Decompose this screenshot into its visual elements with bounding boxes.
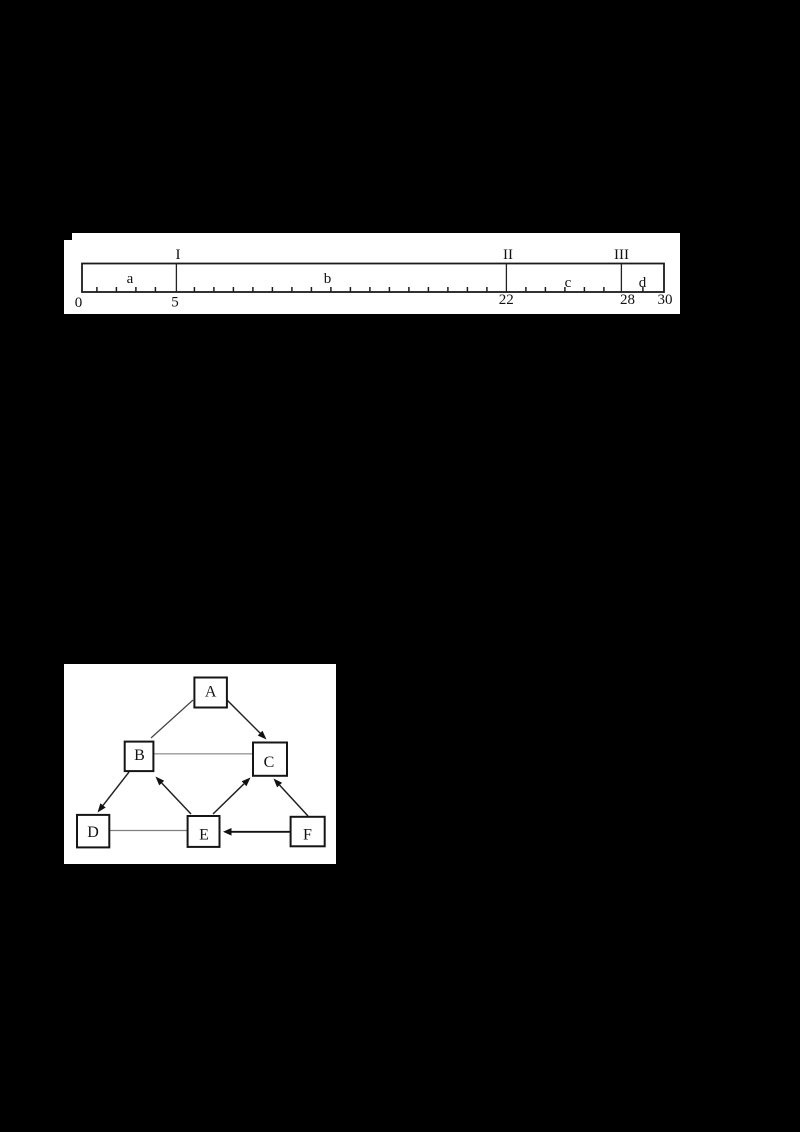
svg-text:B: B — [134, 747, 145, 764]
svg-text:a: a — [127, 271, 134, 287]
svg-text:30: 30 — [658, 292, 673, 308]
svg-text:C: C — [264, 754, 275, 771]
arrow E to B — [156, 777, 192, 815]
divider at 5 — [175, 264, 177, 293]
box F — [291, 817, 325, 847]
arrow B to D — [98, 772, 130, 813]
box D — [77, 815, 109, 848]
svg-text:5: 5 — [171, 295, 179, 311]
arrow E to C — [213, 778, 251, 815]
svg-text:0: 0 — [75, 295, 83, 311]
divider at 28 — [620, 264, 622, 293]
svg-text:c: c — [565, 275, 572, 291]
svg-text:A: A — [205, 684, 217, 701]
wire A to B — [151, 700, 193, 738]
tick marks — [97, 287, 643, 292]
wire D to E — [109, 830, 187, 832]
svg-text:22: 22 — [499, 292, 514, 308]
svg-text:d: d — [639, 275, 647, 291]
ruler band outline — [82, 264, 664, 293]
svg-text:b: b — [324, 271, 332, 287]
svg-text:E: E — [199, 826, 209, 843]
svg-text:III: III — [614, 247, 629, 263]
scan notch top-left — [64, 233, 72, 240]
box E — [188, 816, 220, 847]
svg-text:I: I — [176, 247, 181, 263]
arrow F to C — [274, 779, 309, 817]
top figure panel (ruler diagram) — [64, 233, 680, 314]
arrow F to E — [223, 828, 291, 836]
box C — [253, 743, 287, 776]
svg-text:F: F — [303, 827, 312, 844]
bottom figure panel (A-F graph) — [64, 664, 336, 864]
svg-text:D: D — [87, 824, 99, 841]
svg-text:28: 28 — [620, 292, 635, 308]
wire B to C — [153, 753, 253, 755]
box B — [125, 742, 154, 772]
divider at 22 — [505, 264, 507, 293]
svg-text:II: II — [503, 247, 513, 263]
box A — [194, 678, 227, 708]
arrow A to C — [227, 700, 267, 740]
